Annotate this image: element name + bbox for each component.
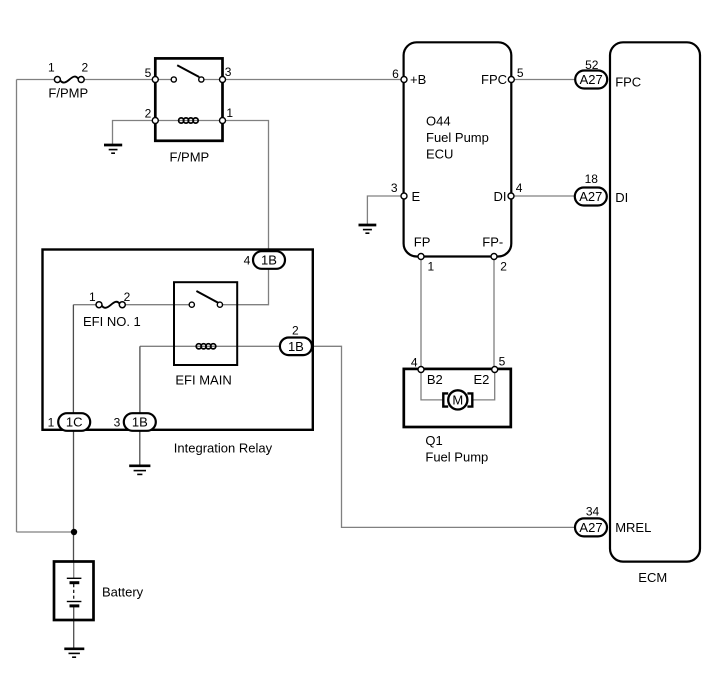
svg-text:F/PMP: F/PMP — [48, 85, 88, 100]
ECU pin 5 FPC — [508, 77, 514, 83]
relay F/PMP pin 1 — [220, 118, 226, 124]
svg-text:1B: 1B — [132, 415, 148, 430]
svg-text:A27: A27 — [580, 72, 603, 87]
svg-text:FP-: FP- — [482, 234, 503, 249]
wire — [420, 257, 422, 370]
wire — [222, 269, 269, 305]
svg-text:E: E — [412, 189, 421, 204]
svg-text:Battery: Battery — [102, 585, 144, 600]
fuse F/PMP wavy element — [60, 77, 78, 83]
svg-text:FPC: FPC — [615, 75, 641, 90]
svg-text:3: 3 — [391, 181, 398, 195]
connector 3 1B — [124, 413, 156, 431]
wire — [113, 121, 156, 146]
wire — [17, 79, 55, 81]
svg-text:1: 1 — [48, 60, 55, 74]
wire — [155, 120, 222, 122]
wire battery dashed center — [73, 584, 75, 601]
ECU pin FP — [418, 254, 424, 260]
connector 2 1B — [280, 338, 312, 356]
svg-text:EFI NO. 1: EFI NO. 1 — [83, 314, 141, 329]
Q1 pin 4 — [418, 367, 424, 373]
svg-text:F/PMP: F/PMP — [170, 150, 210, 165]
wire — [73, 562, 75, 579]
ECU pin 6 +B — [401, 77, 407, 83]
svg-text:B2: B2 — [427, 372, 443, 387]
svg-text:5: 5 — [145, 66, 152, 80]
wire — [140, 345, 280, 347]
svg-text:A27: A27 — [579, 189, 602, 204]
relay F/PMP switch contact right — [199, 77, 204, 82]
relay F/PMP coil — [179, 118, 199, 123]
wire — [17, 531, 75, 533]
connector 1 1C — [58, 413, 90, 431]
battery plate short thick top — [70, 581, 80, 584]
svg-text:Fuel Pump: Fuel Pump — [426, 130, 489, 145]
svg-text:M: M — [452, 393, 463, 408]
relay F/PMP pin 3 — [220, 77, 226, 83]
svg-text:DI: DI — [494, 189, 507, 204]
svg-text:ECM: ECM — [638, 570, 667, 585]
connector A27 pin 18 DI — [575, 188, 607, 206]
svg-text:52: 52 — [585, 58, 599, 72]
svg-text:1: 1 — [89, 290, 96, 304]
connector 4 1B — [253, 251, 285, 269]
wire — [367, 196, 404, 224]
svg-text:34: 34 — [586, 504, 600, 518]
svg-text:4: 4 — [244, 254, 251, 268]
battery plate short thick bottom — [70, 604, 80, 607]
svg-text:4: 4 — [516, 181, 523, 195]
svg-text:1C: 1C — [66, 415, 83, 430]
svg-text:FP: FP — [414, 234, 431, 249]
svg-text:1: 1 — [428, 260, 435, 274]
fuse EFI NO. 1 terminal 2 — [119, 302, 125, 308]
svg-text:Integration Relay: Integration Relay — [174, 440, 273, 455]
wire — [139, 346, 141, 413]
wire — [312, 346, 576, 527]
relay F/PMP switch blade — [177, 65, 199, 77]
svg-text:DI: DI — [615, 190, 628, 205]
svg-text:2: 2 — [81, 60, 88, 74]
fuse F/PMP terminal 1 — [54, 77, 60, 83]
motor M1 commutator right bracket — [467, 393, 472, 406]
relay EFI MAIN switch blade — [196, 291, 218, 303]
svg-text:18: 18 — [585, 172, 599, 186]
motor M1 circle — [448, 390, 467, 409]
wire — [125, 304, 190, 306]
relay EFI MAIN switch contact right — [217, 302, 222, 307]
relay EFI MAIN switch contact left — [189, 302, 194, 307]
wire — [223, 121, 269, 252]
svg-text:2: 2 — [145, 106, 152, 120]
wire — [204, 79, 404, 81]
ground at ECU pin E — [359, 225, 377, 233]
connector A27 pin 34 MREL — [575, 518, 607, 536]
relay EFI MAIN coil — [196, 344, 216, 349]
svg-text:MREL: MREL — [615, 520, 651, 535]
wire — [16, 80, 18, 533]
svg-text:ECU: ECU — [426, 147, 453, 162]
fuse EFI NO. 1 wavy element — [102, 302, 120, 308]
wire — [493, 257, 495, 370]
ECM box — [610, 42, 700, 561]
relay F/PMP box — [155, 58, 222, 140]
wire — [72, 305, 74, 414]
svg-text:E2: E2 — [474, 372, 490, 387]
svg-text:2: 2 — [124, 290, 131, 304]
svg-text:4: 4 — [411, 355, 418, 369]
battery plate long bottom — [67, 601, 82, 603]
wire — [472, 370, 494, 400]
wire — [511, 79, 575, 81]
ground below relay F/PMP pin 2 — [104, 145, 122, 153]
svg-text:+B: +B — [410, 72, 426, 87]
Q1 pin 5 — [492, 367, 498, 373]
svg-text:6: 6 — [392, 67, 399, 81]
svg-text:2: 2 — [292, 323, 299, 337]
battery box — [54, 562, 94, 621]
svg-text:5: 5 — [499, 355, 506, 369]
svg-text:2: 2 — [500, 260, 507, 274]
ground below connector 3 1B — [129, 466, 150, 475]
connector A27 pin 52 FPC — [575, 71, 607, 89]
wire — [421, 370, 443, 400]
wire — [73, 606, 75, 649]
svg-text:1: 1 — [226, 106, 233, 120]
svg-text:EFI MAIN: EFI MAIN — [175, 373, 231, 388]
ECU pin FP- — [491, 254, 497, 260]
svg-text:1B: 1B — [261, 253, 277, 268]
relay F/PMP pin 5 — [152, 77, 158, 83]
junction dot — [71, 529, 77, 535]
svg-text:1B: 1B — [288, 339, 304, 354]
motor M1 commutator left bracket — [443, 393, 448, 406]
relay F/PMP pin 2 — [152, 118, 158, 124]
svg-text:A27: A27 — [579, 520, 602, 535]
fuse F/PMP terminal 2 — [78, 77, 84, 83]
svg-text:3: 3 — [225, 65, 232, 79]
svg-text:1: 1 — [48, 416, 55, 430]
fuse EFI NO. 1 terminal 1 — [96, 302, 102, 308]
relay F/PMP switch contact left — [171, 77, 176, 82]
relay EFI MAIN box — [174, 282, 237, 365]
svg-text:5: 5 — [517, 66, 524, 80]
svg-text:Fuel Pump: Fuel Pump — [425, 449, 488, 464]
ECU pin 3 E — [401, 193, 407, 199]
fuel pump Q1 box — [404, 369, 511, 427]
wire — [84, 79, 172, 81]
svg-text:3: 3 — [114, 416, 121, 430]
wire — [73, 431, 75, 562]
svg-text:O44: O44 — [426, 113, 451, 128]
svg-text:FPC: FPC — [481, 72, 507, 87]
ECU pin 4 DI — [508, 193, 514, 199]
battery plate long top — [67, 577, 82, 579]
wire — [511, 195, 575, 197]
wire — [73, 304, 96, 306]
integration relay box — [43, 250, 313, 430]
wire — [139, 431, 141, 465]
ground below battery — [64, 649, 84, 657]
svg-text:Q1: Q1 — [425, 433, 442, 448]
fuel pump ECU O44 box — [404, 42, 512, 256]
